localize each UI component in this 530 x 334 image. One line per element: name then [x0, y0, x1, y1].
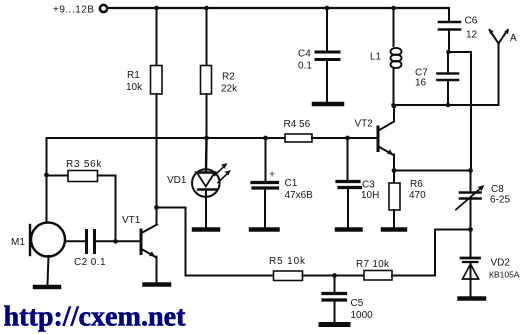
capacitor C1 electrolytic — [265, 138, 267, 181]
svg-text:10k: 10k — [126, 82, 143, 93]
resistor R6 — [393, 171, 395, 184]
node bus-R2VD1 — [204, 136, 209, 141]
svg-text:КВ105А: КВ105А — [489, 270, 520, 280]
svg-text:R1: R1 — [127, 70, 140, 81]
varicap VD2 — [470, 230, 472, 257]
node C8-VD2 — [468, 227, 473, 232]
svg-text:VT1: VT1 — [122, 215, 141, 226]
capacitor C6 — [439, 21, 460, 24]
svg-text:L1: L1 — [370, 52, 382, 63]
node emitter-C8 — [468, 168, 473, 173]
ground C5 — [321, 322, 348, 327]
svg-text:C3: C3 — [362, 180, 375, 191]
wire C6 to node — [448, 31, 450, 52]
svg-text:47x6B: 47x6B — [285, 190, 314, 201]
node C6-C7 — [446, 50, 451, 55]
node L1-tankline — [391, 103, 396, 108]
svg-text:22k: 22k — [221, 84, 238, 95]
wire C4 top — [326, 8, 328, 51]
node collector tap — [154, 205, 159, 210]
capacitor C5 — [334, 276, 336, 292]
node VT2 collector — [392, 104, 397, 109]
svg-text:1000: 1000 — [351, 310, 374, 321]
ground M1 — [35, 285, 59, 290]
svg-text:C5: C5 — [351, 298, 364, 309]
svg-text:A: A — [510, 33, 517, 44]
terminal +9...12V — [100, 5, 107, 12]
wire R2 bottom — [206, 94, 208, 138]
resistor R7 — [364, 271, 392, 281]
svg-text:C6: C6 — [465, 16, 478, 27]
node bus-C1 — [263, 136, 268, 141]
node VT2 emitter — [392, 168, 397, 173]
wire R4 to VT2 base — [312, 137, 377, 139]
capacitor C4 — [316, 51, 339, 54]
wire R5 to R7 — [303, 275, 365, 277]
wire mic bottom — [48, 256, 49, 285]
svg-text:R7 10k: R7 10k — [356, 259, 390, 270]
svg-text:10H: 10H — [361, 190, 379, 201]
wire R3 right to base node — [98, 176, 116, 242]
svg-text:+9...12В: +9...12В — [53, 5, 94, 16]
svg-text:12: 12 — [466, 30, 478, 41]
node bus-C3 — [345, 136, 350, 141]
wire R7 right — [392, 275, 435, 277]
wire R1 bottom to VT1 collector — [156, 94, 158, 225]
ground VD2 — [460, 296, 485, 301]
ground R6 — [383, 227, 405, 232]
svg-text:VD1: VD1 — [167, 175, 187, 186]
wire R7 riser — [435, 230, 471, 276]
ground VT1 — [145, 282, 170, 287]
svg-text:M1: M1 — [11, 237, 25, 248]
node rail-C4 — [325, 6, 330, 11]
node C5 — [332, 273, 337, 278]
svg-text:16: 16 — [415, 78, 427, 89]
svg-text:R2: R2 — [222, 72, 235, 83]
variable capacitor C8 — [470, 171, 472, 192]
wire C2 to base — [96, 240, 139, 242]
ground C1 — [251, 227, 278, 232]
wire VD1 feed — [205, 138, 208, 172]
wire C6 drop — [448, 8, 450, 21]
svg-text:C8: C8 — [491, 184, 504, 195]
svg-text:C1: C1 — [285, 178, 298, 189]
node R3 left — [44, 173, 49, 178]
resistor R5 — [274, 271, 303, 281]
wire top supply rail — [107, 7, 449, 9]
wire R2 top — [206, 8, 208, 66]
wire R1 top — [156, 8, 158, 66]
node C7-tankline — [446, 103, 451, 108]
capacitor C2 — [85, 231, 88, 253]
ground VD1 — [194, 227, 218, 232]
svg-text:C4: C4 — [298, 49, 311, 60]
svg-text:0.1: 0.1 — [298, 61, 312, 72]
svg-text:R4 56: R4 56 — [284, 119, 311, 130]
inductor L1 — [391, 48, 402, 55]
LED VD1 — [192, 169, 220, 197]
wire audio tap — [157, 208, 274, 276]
LED arrows — [215, 167, 225, 176]
svg-text:http://cxem.net: http://cxem.net — [4, 302, 187, 333]
wire base bus left corner — [47, 138, 286, 222]
svg-text:+: + — [269, 169, 275, 181]
svg-text:R5 10k: R5 10k — [269, 256, 306, 267]
svg-text:R3 56k: R3 56k — [66, 159, 103, 170]
svg-text:6-25: 6-25 — [490, 195, 510, 206]
wire L1 top — [393, 8, 395, 46]
microphone M1 — [31, 223, 65, 257]
svg-text:VD2: VD2 — [491, 258, 511, 269]
ground C3 — [337, 227, 361, 232]
wire mic to C2 — [65, 240, 85, 242]
ground C4 — [314, 102, 342, 107]
resistor R3 — [47, 175, 69, 177]
svg-text:C2 0.1: C2 0.1 — [74, 257, 106, 268]
svg-text:VT2: VT2 — [355, 119, 374, 130]
wire node to tap line — [449, 52, 472, 171]
resistor R1 — [151, 66, 163, 95]
capacitor C3 — [347, 138, 349, 181]
node rail-R1 — [154, 6, 159, 11]
node rail-L1 — [391, 6, 396, 11]
wire tank line to antenna — [394, 104, 499, 106]
resistor R2 — [201, 66, 212, 95]
node base VT1 — [113, 239, 118, 244]
resistor R4 — [285, 134, 312, 142]
svg-text:470: 470 — [409, 190, 426, 201]
wire emitter line — [394, 170, 471, 172]
antenna A — [498, 44, 500, 106]
wire L1 bottom — [393, 68, 395, 105]
wire C7 top — [447, 52, 449, 73]
wire C7 bottom — [447, 81, 449, 105]
capacitor C7 — [438, 72, 459, 75]
wire C4 bottom — [326, 61, 328, 102]
svg-text:R6: R6 — [410, 179, 423, 190]
node rail-R2 — [204, 6, 209, 11]
